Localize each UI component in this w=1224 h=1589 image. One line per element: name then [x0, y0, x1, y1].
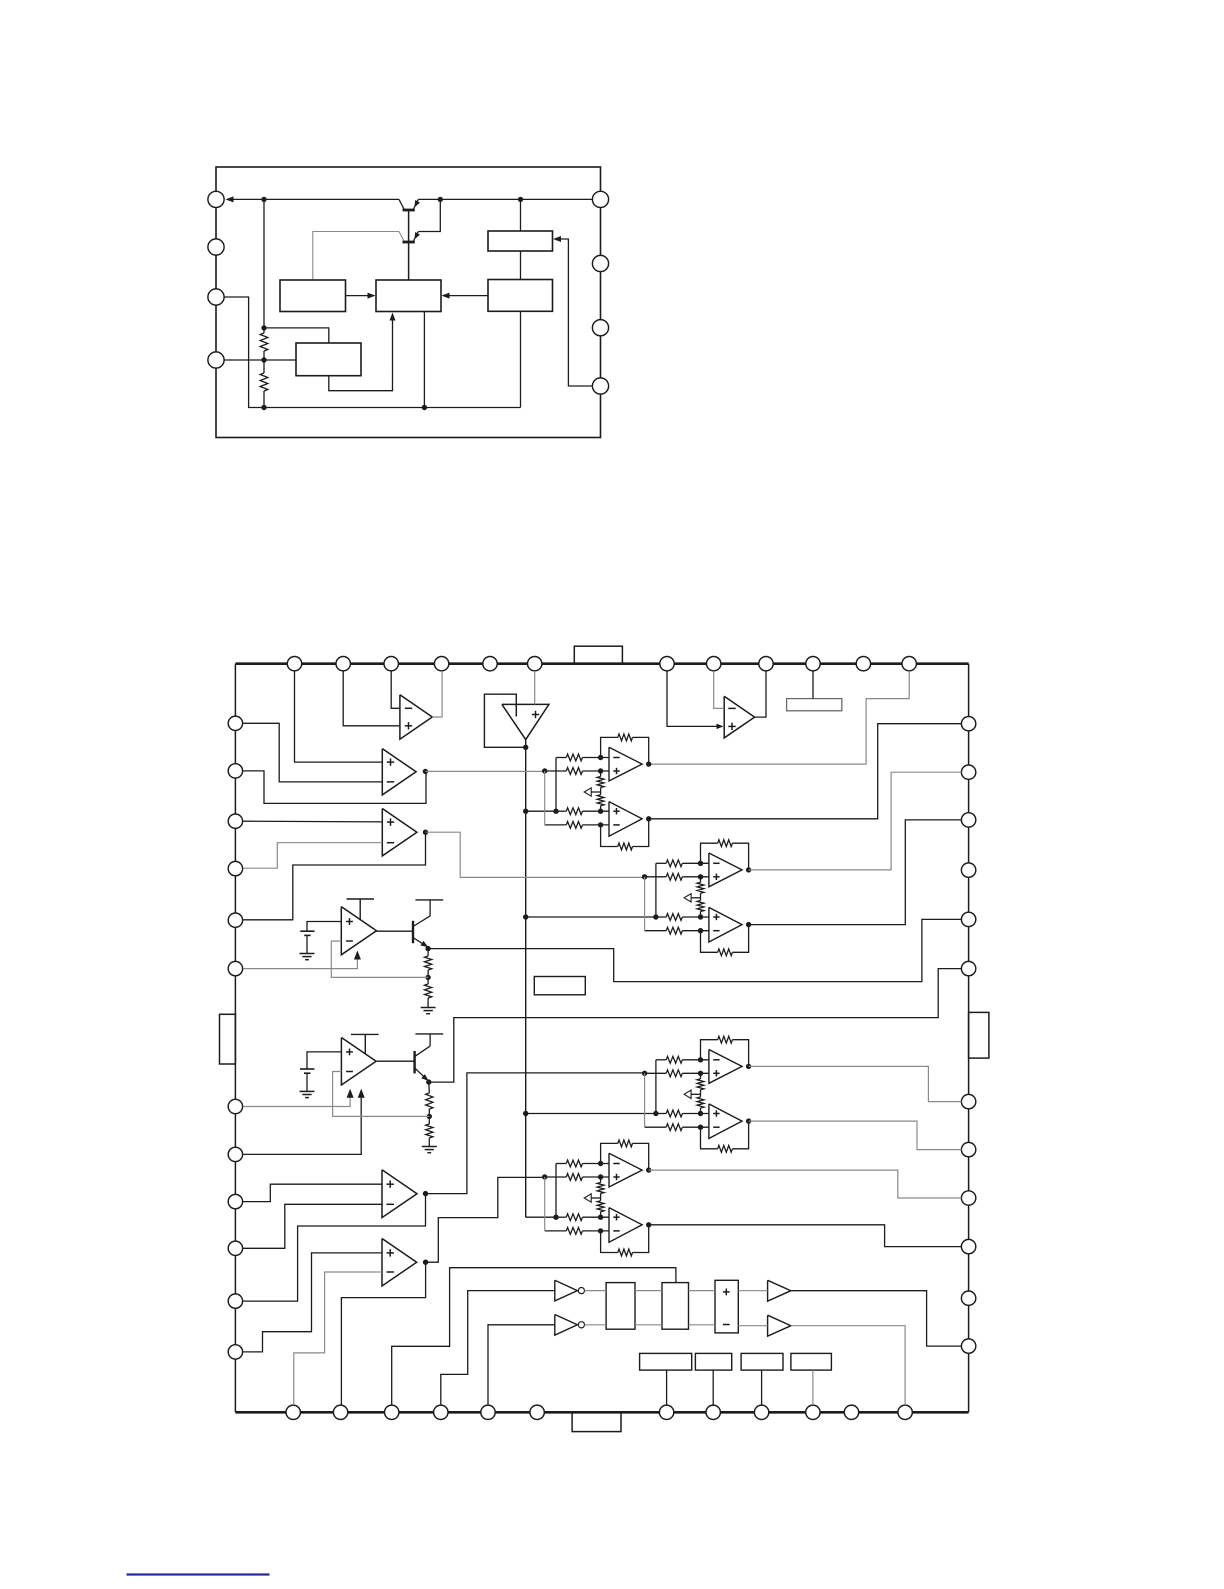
op-amp B2 (resnet 2 bottom)	[709, 907, 742, 942]
pin 3 (left)	[208, 289, 224, 305]
input resistor Rc2	[656, 916, 666, 918]
bottom pin 10	[806, 1405, 820, 1419]
wire S1 to S2 (bottom)	[635, 1324, 662, 1326]
node A3 output	[746, 1064, 751, 1069]
wire resnet1 B output to right pin1	[649, 724, 962, 819]
wire U8 output to left pin11	[243, 1194, 425, 1302]
wire left pin4 to U5 inverting input	[243, 843, 382, 869]
pin 2 (left)	[208, 239, 224, 255]
resistor R5 (divider top)	[428, 1082, 431, 1093]
Q4 collector supply stub	[429, 1034, 431, 1046]
bottom pin 5	[481, 1405, 495, 1419]
right pin 1	[961, 717, 975, 731]
feedback resistor RF3b	[701, 1127, 718, 1149]
wire divider feedback to U6	[331, 941, 428, 977]
right pin 9	[961, 1191, 975, 1205]
node top rail at Q2 emitter return	[438, 197, 443, 202]
capacitor C2 on U7 input	[307, 1052, 341, 1069]
feedback resistor RF1a	[601, 737, 618, 757]
wire top pin6 to U2 non-inverting input	[534, 671, 536, 705]
wire bus tap to resnet 2	[526, 916, 656, 918]
left pin 9	[228, 1194, 242, 1208]
left pin 8	[228, 1147, 242, 1161]
Q3 collector supply stub	[429, 900, 431, 916]
block C (center)	[376, 280, 441, 312]
op-amp U2 unity buffer (points down)	[502, 704, 549, 739]
wire resnet2 A output to right pin2	[749, 772, 962, 870]
bottom index notch	[572, 1412, 621, 1431]
wire top pin2 to U1 non-inverting input	[343, 671, 400, 726]
wire bottom pin4 to inverter G1	[441, 1291, 555, 1406]
node bottom rail below C	[422, 405, 427, 410]
block S2 (logic)	[662, 1283, 689, 1330]
op-amp A4 (resnet 4 top)	[609, 1153, 642, 1187]
node B3 output	[746, 1118, 751, 1123]
right pin 7	[961, 1094, 975, 1108]
wire left pin7 control arrow 1 into U7	[243, 1096, 350, 1107]
block label L2	[695, 1353, 731, 1370]
wire block L3 to bottom pin9	[761, 1370, 763, 1405]
bottom pin 4	[434, 1405, 448, 1419]
wire main reference bus	[525, 740, 527, 1218]
block label L3	[741, 1353, 783, 1370]
op-amp U1 (top left)	[400, 695, 432, 739]
IC block diagram 2 outer border	[234, 664, 236, 1413]
wire S2 to S3 (bottom)	[689, 1324, 716, 1326]
left pin 2	[228, 764, 242, 778]
top pin 3	[384, 657, 398, 671]
wire U4 output loop to left pin2	[243, 771, 426, 804]
node bus tap 1	[523, 809, 528, 814]
bottom pin 6	[530, 1405, 544, 1419]
top pin 1	[287, 657, 301, 671]
left bias column wire	[263, 199, 265, 333]
node B4 output	[646, 1222, 651, 1227]
wire resnet1 op output to top pin12	[649, 671, 910, 764]
wire U4 output to resnet1 input	[425, 770, 544, 772]
left pin 3	[228, 814, 242, 828]
block label L1	[640, 1353, 692, 1370]
transistor Q3 (NPN follower)	[377, 930, 414, 932]
IC block diagram 1 outer border	[216, 167, 601, 438]
wire block A to block B	[520, 251, 522, 280]
pin 7 (right)	[592, 255, 608, 271]
ground below R6	[422, 1146, 437, 1148]
wire left pin1 to U4 inverting input	[243, 723, 382, 782]
wire G1 to S1	[585, 1290, 607, 1292]
top pin 9	[759, 657, 773, 671]
top index notch	[574, 646, 622, 664]
feedback resistor RF2a	[701, 843, 718, 863]
wire tap to block E top	[264, 328, 329, 343]
wire left pin9 to U8 non-inverting input	[243, 1184, 382, 1201]
top pin 8	[707, 657, 721, 671]
footer rule	[127, 1573, 270, 1575]
input resistor Rd1	[545, 824, 567, 826]
block BIAS (center)	[534, 977, 585, 995]
wire bottom pin5 to inverter G2	[488, 1325, 555, 1405]
wire left pin3 to U5 non-inverting input	[243, 820, 382, 823]
node at R1/R2 tap	[261, 357, 266, 362]
node at column bottom	[261, 405, 266, 410]
wire top pin8 to U3 inverting input	[714, 671, 725, 709]
left pin 11	[228, 1294, 242, 1308]
wire pin 3 to bottom rail	[224, 297, 520, 408]
wire S3 to buffer T2	[738, 1325, 767, 1327]
node A4 output	[646, 1167, 651, 1172]
op-amp U8	[382, 1170, 417, 1218]
top pin 10	[806, 657, 820, 671]
right pin 12	[961, 1339, 975, 1353]
node divider tap 1	[425, 975, 430, 980]
right pin 6	[961, 961, 975, 975]
wire top pin7 to U3 non-inverting input with arrow	[667, 671, 719, 727]
node B2 output	[746, 922, 751, 927]
trim potentiometer P1	[600, 771, 602, 777]
ground below R4	[421, 1007, 436, 1009]
right pin 2	[961, 765, 975, 779]
wire Q2 collector to block D	[313, 232, 399, 281]
node U2 output	[523, 745, 528, 750]
top pin 11	[856, 657, 870, 671]
input resistor Ra1	[556, 757, 566, 759]
wire S1 to S2 (top)	[635, 1290, 662, 1292]
op-amp A3 (resnet 3 top)	[709, 1050, 742, 1084]
block label L4	[791, 1353, 832, 1370]
feedback resistor RF1b	[601, 825, 618, 847]
node U4 output	[423, 769, 428, 774]
top pin 2	[336, 657, 350, 671]
top pin 6	[528, 657, 542, 671]
left pin 4	[228, 861, 242, 875]
op-amp B3 (resnet 3 bottom)	[709, 1104, 742, 1139]
block REF (top)	[787, 699, 842, 711]
wire D to C with arrow	[346, 295, 372, 297]
wire top pin10 to block REF	[812, 671, 814, 699]
wire block L4 to bottom pin10	[812, 1370, 814, 1405]
node A2 output	[746, 867, 751, 872]
ground for C2	[300, 1090, 315, 1092]
input resistor Ra2	[656, 862, 666, 864]
wire U8 output to resnet3 input	[426, 1073, 645, 1194]
transistor Q4 (NPN follower)	[376, 1060, 415, 1062]
input resistor Rd4	[545, 1230, 567, 1232]
ground for C1	[300, 953, 315, 955]
wire top pin1 to U4 non-inverting input	[295, 671, 383, 762]
node bus tap 3	[523, 1111, 528, 1116]
wire left pin8 control arrow 2 into U7	[243, 1096, 361, 1154]
block E (lower left)	[296, 343, 361, 376]
wire U1 output to top pin4	[432, 671, 442, 717]
node at R1 top tap	[261, 325, 266, 330]
wire resnet4 A output to right pin9	[649, 1170, 962, 1198]
resistor R6 (divider bottom)	[426, 1124, 433, 1138]
wire U9 output to resnet4 input	[426, 1177, 545, 1262]
inverter G2	[555, 1315, 578, 1336]
pin 6 (right)	[592, 320, 608, 336]
right pin 11	[961, 1291, 975, 1305]
left pin 12	[228, 1345, 242, 1359]
left pin 5	[228, 913, 242, 927]
wire S3 to buffer T1	[738, 1290, 767, 1292]
input resistor Rc1	[556, 810, 566, 812]
capacitor C1 on U6 input	[307, 922, 341, 932]
trim potentiometer P3	[700, 1073, 702, 1079]
trim potentiometer P4	[600, 1177, 602, 1183]
top pin 7	[660, 657, 674, 671]
input resistor Rc4	[556, 1216, 566, 1218]
node B1 output	[646, 816, 651, 821]
wire left pin10 to U8 inverting input	[243, 1204, 382, 1248]
U2 feedback loop wire	[484, 694, 525, 747]
buffer T2	[768, 1315, 791, 1336]
feedback resistor RF4b	[601, 1231, 618, 1253]
resistor R1	[260, 333, 268, 351]
wire G2 to S1	[585, 1324, 607, 1326]
op-amp U9	[382, 1239, 417, 1287]
feedback resistor RF3a	[701, 1040, 718, 1060]
transistor Q1 (PNP)	[399, 199, 404, 209]
left pin 1	[228, 716, 242, 730]
op-amp U7 (regulator amp 2)	[341, 1038, 376, 1086]
wire buffer T1 output to right pin12	[791, 1291, 962, 1346]
left pin 10	[228, 1241, 242, 1255]
wire pin 4 to block E	[224, 359, 296, 361]
node divider tap 2	[427, 1114, 432, 1119]
left side tab	[220, 1014, 236, 1064]
op-amp A2 (resnet 2 top)	[709, 853, 742, 887]
right pin 4	[961, 863, 975, 877]
inverter G1	[555, 1280, 578, 1301]
wire block L1 to bottom pin7	[666, 1370, 668, 1405]
wire bus tap to resnet 3	[526, 1113, 656, 1115]
wire resnet4 B output to right pin10	[649, 1225, 962, 1247]
pin 8 (top-right)	[592, 191, 608, 207]
wire differential input to resnet 1	[542, 768, 547, 773]
wire resnet3 A output to right pin7	[749, 1066, 962, 1101]
block S3 (comparator +/-)	[715, 1280, 738, 1333]
wire buffer T2 output to bottom pin12	[791, 1326, 905, 1405]
op-amp U6 (regulator amp 1)	[341, 907, 376, 955]
node Q3 emitter	[425, 946, 430, 951]
wire left pin12 to U9 non-inverting input	[243, 1253, 382, 1352]
input resistor Rd3	[645, 1126, 667, 1128]
wire resnet2 B output to right pin3	[749, 820, 962, 925]
right pin 10	[961, 1239, 975, 1253]
wire Q3 emitter to right pin5	[428, 919, 961, 981]
op-amp U4 (left, second row)	[382, 749, 416, 795]
node U8 output	[423, 1191, 428, 1196]
top pin 12	[902, 657, 916, 671]
bottom pin 9	[754, 1405, 768, 1419]
wire differential input to resnet 3	[642, 1071, 647, 1076]
wire differential input to resnet 2	[642, 874, 647, 879]
op-amp U5 (left, third row)	[382, 809, 417, 856]
wire Q1 base to Q2 to block C	[408, 210, 410, 280]
right pin 3	[961, 813, 975, 827]
bottom pin 12	[898, 1405, 912, 1419]
top pin 4	[434, 657, 448, 671]
transistor Q2 (PNP)	[399, 232, 404, 242]
U6 supply stub	[347, 898, 375, 900]
wire U5 output to resnet2 input	[426, 832, 645, 877]
node U5 output	[423, 830, 428, 835]
block S1 (logic)	[606, 1283, 635, 1330]
U7 supply stub	[351, 1033, 379, 1035]
pin 4 (bottom-left)	[208, 352, 224, 368]
wire U9 output to bottom pin2	[341, 1262, 425, 1405]
resistor R3 (divider top)	[427, 949, 429, 956]
block B (right)	[488, 280, 553, 312]
node bus tap 2	[523, 914, 528, 919]
left pin 6	[228, 961, 242, 975]
wire U5 output to left pin5	[243, 832, 425, 920]
wire resnet3 B output to right pin8	[749, 1121, 962, 1150]
bottom pin 2	[333, 1405, 347, 1419]
trim potentiometer P2	[700, 877, 702, 883]
op-amp U3 (top right)	[724, 696, 754, 738]
wire bottom pin3 to block S2	[392, 1268, 676, 1405]
wire block E to block C with arrow	[329, 316, 393, 391]
wire top pin3 to U1 inverting input	[391, 671, 400, 708]
op-amp B1 (resnet 1 bottom)	[609, 802, 642, 837]
wire block B bottom to bottom rail	[520, 311, 522, 407]
op-amp A1 (resnet 1 top)	[609, 747, 642, 781]
wire divider feedback to U7	[333, 1072, 430, 1117]
wire left pin6 control arrow into U6	[243, 958, 357, 969]
input resistor Ra4	[556, 1163, 566, 1165]
input resistor Rb1	[545, 770, 567, 772]
block D (left)	[280, 280, 346, 312]
wire U3 output to top pin9	[755, 671, 766, 717]
bottom pin 7	[659, 1405, 673, 1419]
right pin 8	[961, 1142, 975, 1156]
wire block L2 to bottom pin8	[712, 1370, 714, 1405]
wire differential input to resnet 4	[542, 1174, 547, 1179]
resistor R2	[260, 373, 268, 391]
pin 5 (bottom-right)	[592, 378, 608, 394]
wire S2 to S3 (top)	[689, 1290, 716, 1292]
wire bus tap to resnet 4	[526, 1216, 556, 1218]
input resistor Rc3	[656, 1113, 666, 1115]
right side tab	[969, 1012, 989, 1058]
wire block C bottom to bottom rail	[423, 312, 425, 408]
input resistor Rb2	[645, 876, 667, 878]
left pin 7	[228, 1099, 242, 1113]
input resistor Rb4	[545, 1176, 567, 1178]
bottom pin 3	[385, 1405, 399, 1419]
op-amp B4 (resnet 4 bottom)	[609, 1208, 642, 1243]
feedback resistor RF2b	[701, 931, 718, 953]
bottom pin 1	[286, 1405, 300, 1419]
top rail wire with arrow into pin 1	[228, 198, 400, 200]
bottom pin 11	[844, 1405, 858, 1419]
node top rail above block A	[518, 197, 523, 202]
top pin 5	[483, 657, 497, 671]
input resistor Rb3	[645, 1072, 667, 1074]
block A (upper right)	[520, 199, 522, 231]
buffer T1	[768, 1280, 791, 1301]
feedback resistor RF4a	[601, 1143, 618, 1163]
resistor R4 (divider bottom)	[425, 984, 432, 998]
right pin 5	[961, 912, 975, 926]
wire bottom pin1 to U9 inverting input	[294, 1272, 382, 1405]
input resistor Rd2	[645, 930, 667, 932]
wire top rail right of Q1	[418, 198, 592, 200]
node Q4 emitter	[426, 1079, 431, 1084]
node A1 output	[646, 761, 651, 766]
bottom pin 8	[706, 1405, 720, 1419]
node on top rail	[261, 197, 266, 202]
wire Q4 emitter to right pin6	[429, 969, 962, 1083]
input resistor Ra3	[656, 1059, 666, 1061]
wire Q2 emitter to top rail	[418, 199, 440, 231]
node U9 output	[423, 1260, 428, 1265]
wire pin5 to block A with arrow	[557, 239, 593, 386]
pin 1 (top-left)	[208, 191, 224, 207]
wire bus tap to resnet 1	[526, 810, 556, 812]
wire B to C with arrow	[446, 295, 488, 297]
